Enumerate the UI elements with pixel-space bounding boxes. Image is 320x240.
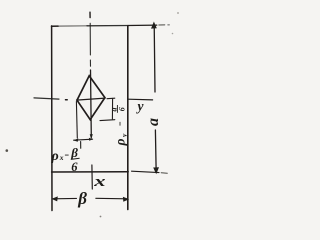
rectangle section: bottom edge (52, 171, 129, 173)
rotated formula fraction bar (116, 105, 118, 113)
horizontal centerline dot (66, 99, 68, 101)
rho-x dimension right arrowhead (89, 138, 93, 141)
arrowhead of centerline at rho-x line (90, 134, 93, 139)
rectangle section: left edge with extension below (51, 26, 53, 211)
bottom extension line to a-dimension (132, 171, 160, 172)
horizontal centerline through diamond (77, 98, 106, 100)
svg-text:y: y (136, 99, 145, 114)
ink speck bottom center (100, 216, 102, 218)
svg-text:β: β (70, 145, 78, 160)
vertical centerline segment below top edge (89, 23, 91, 55)
rotated formula rho_y = a/6 (110, 107, 129, 146)
rectangle section: top edge right part (87, 25, 128, 27)
rho-x left extension tick under diamond left vertex (75, 102, 78, 139)
formula fraction bar (71, 158, 80, 159)
top extension dash (159, 24, 165, 26)
rectangle section: top edge middle part (58, 25, 87, 27)
y-level extension line to the right of rectangle (128, 98, 153, 101)
rho-x dimension left arrowhead (73, 138, 78, 141)
ink speck right (172, 33, 174, 35)
top extension line to a-dimension (128, 24, 157, 26)
svg-text:=: = (116, 121, 125, 126)
stray short tick above formula (80, 142, 82, 149)
ink speck left margin (6, 149, 9, 152)
svg-text:ρ: ρ (113, 139, 128, 147)
b dimension line left segment (53, 197, 77, 199)
bottom extension dash (161, 172, 167, 174)
rho-x dimension line (74, 139, 93, 140)
svg-text:a: a (145, 118, 162, 126)
a dimension bottom arrowhead (153, 167, 159, 174)
a dimension vertical line lower segment (154, 130, 157, 169)
b dimension right arrowhead (123, 197, 129, 202)
x tick crossing bottom edge (91, 165, 93, 189)
svg-text:x: x (93, 173, 106, 189)
vertical centerline short dash (89, 60, 91, 66)
kern diamond (77, 76, 105, 120)
rho-y bracket vertical line (111, 98, 113, 119)
rho-y bracket top tick (107, 97, 115, 100)
svg-text:y: y (120, 133, 129, 138)
vertical centerline through diamond down to rho-x bracket (90, 70, 93, 137)
svg-text:6: 6 (117, 107, 126, 111)
rectangle section: right edge with extension below (127, 26, 129, 210)
svg-text:ρ: ρ (51, 149, 59, 164)
b dimension line right segment (96, 197, 127, 200)
ink speck top right (177, 12, 179, 14)
b dimension left arrowhead (52, 196, 58, 201)
vertical centerline dash above rectangle (89, 12, 91, 17)
rectangle section: top edge left part (52, 25, 59, 27)
a/y dimension vertical line upper segment (153, 25, 156, 93)
svg-text:=: = (64, 151, 69, 160)
svg-text:6: 6 (71, 160, 78, 174)
horizontal centerline dash at left (34, 98, 59, 99)
a dimension top arrowhead (151, 22, 157, 29)
top extension dot (168, 24, 170, 26)
svg-text:β: β (77, 189, 87, 208)
paper background (0, 0, 204, 224)
rho-y bracket bottom tick / extension from diamond bottom vertex (100, 119, 115, 122)
